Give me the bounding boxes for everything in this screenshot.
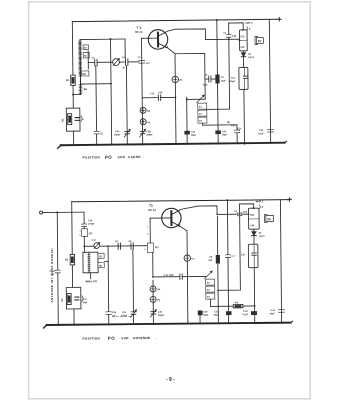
svg-text:9V: 9V: [267, 217, 271, 221]
resistor R1: [71, 75, 76, 86]
wire C1 branch down: [95, 66, 98, 145]
wire base link up: [149, 218, 151, 243]
node dots bottom rail 2: [57, 322, 282, 326]
svg-text:POSITION: POSITION: [82, 155, 100, 159]
transistor T1 (bottom): [162, 208, 182, 228]
node dots bottom rail: [73, 142, 272, 146]
svg-text:140: 140: [240, 46, 245, 49]
caption 2: [82, 335, 156, 341]
svg-text:DO: DO: [89, 232, 93, 235]
node +9V tick: [277, 18, 281, 21]
svg-text:C.16: C.16: [243, 311, 248, 313]
wire C2 branch down: [125, 65, 128, 144]
capacitor C19 electrolytic: [198, 310, 203, 315]
svg-text:OC 44: OC 44: [135, 30, 143, 34]
wire R6 to rail: [243, 305, 255, 307]
wire top supply rail: [72, 200, 288, 202]
svg-text:S4': S4': [207, 296, 211, 299]
battery 9V: [255, 37, 258, 45]
svg-text:5µF: 5µF: [208, 260, 212, 262]
node junction: [72, 94, 74, 96]
capacitor on right rail 2: [279, 309, 284, 311]
wire right branch 2: [280, 200, 281, 323]
capacitor C4: [227, 34, 231, 36]
capacitor C13 electrolytic: [184, 131, 190, 135]
wire HP branch vertical 2: [239, 204, 242, 290]
diode D3: [140, 119, 146, 125]
wire Bo top to mid branch: [81, 83, 111, 85]
capacitor C16: [82, 223, 87, 225]
transistor T1: [148, 30, 168, 50]
svg-text:S4': S4': [199, 106, 203, 109]
node junction: [109, 38, 111, 40]
wire left branch: [71, 202, 74, 255]
transfo MF box2 with C11: [239, 67, 248, 89]
wire HP loop: [229, 23, 244, 30]
coupling box DO2: [147, 243, 153, 253]
battery 9V (2): [265, 214, 268, 222]
wire below R1: [72, 86, 74, 108]
svg-text:S4': S4': [199, 120, 203, 123]
trimmer C2B: [140, 130, 145, 132]
svg-text:C2B: C2B: [146, 131, 151, 133]
wire tuned row: [100, 245, 147, 247]
caption 1: [82, 154, 144, 160]
svg-text:T1: T1: [149, 204, 153, 208]
svg-text:S4': S4': [199, 113, 203, 116]
wire coupling branch: [83, 212, 85, 224]
svg-text:ANTENNE: ANTENNE: [133, 336, 150, 340]
wire vertical from top wire corner: [124, 39, 126, 59]
svg-text:50µF: 50µF: [214, 315, 220, 317]
wire collector 2: [172, 206, 239, 215]
wire chain down with diodes: [152, 280, 154, 324]
capacitor C7: [226, 254, 231, 256]
diode P4: [150, 286, 156, 292]
wire diode to box2 (2): [253, 236, 255, 245]
trimmer CV1: [113, 59, 120, 66]
capacitor C6: [139, 60, 144, 62]
svg-text:455kc PO: 455kc PO: [85, 279, 97, 283]
capacitor C2: [120, 61, 126, 63]
svg-text:1µF: 1µF: [112, 315, 116, 317]
wire pot bottom: [202, 123, 237, 144]
svg-text:R1: R1: [66, 78, 70, 82]
wire pot mid link: [207, 108, 230, 110]
wire coil bottom stub: [90, 273, 92, 279]
capacitor C5 electrolytic: [215, 74, 219, 83]
coil tap box 150: [81, 71, 89, 76]
svg-text:ANTENNE INT DANS BUREAU: ANTENNE INT DANS BUREAU: [50, 248, 54, 303]
wire collector: [159, 29, 240, 41]
svg-text:T 1: T 1: [136, 26, 141, 30]
svg-text:SUR: SUR: [121, 336, 129, 340]
wire left branch: [71, 22, 74, 75]
wire box1 to diode 2: [253, 229, 255, 231]
wire HP branch vertical: [228, 23, 231, 109]
transfo MF box2 with C13 (2): [248, 244, 258, 268]
wire pot bottom 2: [210, 299, 233, 307]
wire emitter branch: [175, 54, 176, 144]
wire emitter horizontal: [175, 52, 205, 54]
diode D2: [140, 107, 146, 113]
svg-text:OC 44: OC 44: [148, 208, 156, 212]
svg-text:CADRE: CADRE: [128, 155, 141, 159]
svg-text:250pF: 250pF: [114, 134, 121, 136]
wire box2 down (2): [253, 268, 256, 323]
resistor R3: [172, 76, 178, 82]
coil tap box 24: [83, 45, 89, 50]
wire mid supply branch 2: [227, 200, 228, 323]
resistor R1b: [70, 254, 75, 265]
svg-text:0,1µF: 0,1µF: [258, 133, 264, 135]
wire base branch: [142, 38, 143, 144]
svg-text:50µF: 50µF: [191, 135, 197, 137]
earphone HP1 winding box: [239, 30, 247, 51]
svg-text:250pF: 250pF: [158, 315, 165, 317]
svg-text:50µF: 50µF: [203, 315, 209, 317]
wire vertical mid: [111, 39, 112, 144]
wire below R1b: [71, 265, 73, 287]
wire tap to C18 branch: [104, 261, 108, 263]
svg-text:C.21: C.21: [270, 310, 275, 312]
svg-text:S4': S4': [207, 289, 211, 292]
resistor R7: [184, 255, 190, 261]
svg-text:PO: PO: [108, 336, 115, 341]
diode D1 (2): [252, 231, 257, 235]
svg-text:50µF: 50µF: [222, 134, 228, 136]
svg-text:OA70: OA70: [248, 56, 255, 59]
wire tap bracket: [87, 51, 89, 69]
svg-text:250pF: 250pF: [146, 134, 153, 136]
svg-text:140: 140: [250, 224, 255, 227]
capacitor C1: [93, 61, 94, 63]
svg-text:9V: 9V: [258, 39, 262, 43]
wire C21 row: [152, 252, 154, 276]
ground right tick: [285, 141, 287, 143]
diode P2: [150, 296, 156, 302]
svg-text:◄HP 1: ◄HP 1: [244, 21, 253, 25]
capacitor C6 electrolytic: [216, 255, 220, 264]
capacitor C4 (2): [238, 212, 242, 214]
node emitter/C10: [175, 97, 177, 99]
potentiometer S4 stack: [197, 95, 205, 103]
capacitor C15c electrolytic: [226, 311, 232, 315]
capacitor C20 (tuning pad 4.6): [130, 243, 132, 249]
svg-text:PO: PO: [105, 155, 112, 160]
diode D1: [241, 53, 246, 57]
trimmer C14b: [131, 311, 136, 313]
svg-text:- 9 -: - 9 -: [166, 377, 175, 383]
svg-text:.: .: [155, 336, 156, 340]
wire diode to box2: [243, 57, 245, 68]
wire right branch: [269, 19, 270, 142]
wire emitter: [159, 43, 175, 53]
svg-text:S4': S4': [207, 282, 211, 285]
capacitor C19 (tuning pad 10): [117, 243, 119, 249]
antenna coil DO tap box: [82, 229, 88, 237]
ground left arrow: [58, 145, 61, 148]
earphone HP1 winding box 2: [248, 208, 259, 229]
trimmer C15b: [151, 311, 156, 313]
resistor R2b + capacitor parallel block: [66, 287, 81, 309]
wire box2 down: [243, 89, 246, 144]
trimmer C17: [94, 243, 100, 249]
wire collector to HP1: [242, 213, 249, 215]
oscillator coil box: [83, 252, 98, 273]
wire antenna ground branch: [57, 212, 58, 324]
capacitor C14: [235, 129, 240, 131]
svg-text:Bo: Bo: [84, 87, 88, 91]
svg-text:10µF: 10µF: [221, 80, 227, 82]
coil tap box 50: [83, 52, 89, 58]
capacitor C10: [142, 97, 158, 99]
capacitor C18b: [106, 311, 111, 313]
svg-text:10µF: 10µF: [82, 302, 88, 304]
resistor R2 + capacitor parallel block: [66, 108, 80, 131]
svg-text:OA70: OA70: [259, 235, 266, 238]
wire to coil bottom: [73, 94, 80, 96]
svg-text:C2A: C2A: [115, 130, 120, 133]
potentiometer S4 stack 2: [205, 271, 213, 279]
wire right vertical of emitter loop: [204, 53, 207, 99]
resistor R6: [233, 305, 243, 308]
wire tap to C1: [88, 61, 93, 63]
svg-text:DO: DO: [155, 246, 159, 249]
wire box1 to diode: [242, 51, 244, 53]
antenna input terminal: [40, 211, 43, 214]
wire mid supply branch: [217, 20, 218, 143]
coil L1 primary: [79, 40, 82, 95]
capacitor C18a: [55, 269, 60, 271]
svg-text:R1: R1: [65, 257, 69, 261]
wire emitter 2: [172, 222, 187, 231]
capacitor C9: [205, 78, 209, 80]
capacitor C16c electrolytic: [251, 311, 257, 315]
wire HP loop 2: [240, 204, 254, 209]
wire bottom ground rail: [47, 323, 291, 325]
svg-text:C.21 40pF: C.21 40pF: [164, 274, 175, 277]
svg-text:POSITION: POSITION: [82, 336, 100, 340]
coil L1 secondary Bo: [79, 84, 82, 93]
svg-text:.: .: [143, 155, 144, 159]
svg-text:470pF: 470pF: [88, 223, 95, 226]
svg-text:150: 150: [82, 73, 87, 76]
wire top supply rail: [72, 19, 277, 21]
wire C18 branch vertical: [107, 246, 110, 312]
svg-text:0,1µF: 0,1µF: [243, 314, 249, 316]
capacitor C10b on right rail: [268, 128, 273, 130]
wire bottom ground rail: [61, 143, 285, 146]
svg-text:◄HP 1: ◄HP 1: [255, 199, 264, 203]
svg-text:370: 370: [240, 35, 245, 38]
svg-text:40pF: 40pF: [269, 312, 275, 315]
svg-text:540: 540: [250, 214, 255, 217]
wire coil top: [80, 38, 125, 41]
capacitor C3: [94, 130, 99, 132]
capacitor C15 electrolytic: [215, 130, 221, 134]
wire pot mid link 2: [217, 289, 240, 291]
wire branch to pot: [186, 97, 189, 143]
svg-text:SUR: SUR: [118, 155, 126, 159]
svg-text:2kpF: 2kpF: [230, 81, 236, 83]
wire emitter branch 2: [186, 231, 189, 324]
trimmer C2A: [125, 130, 130, 132]
